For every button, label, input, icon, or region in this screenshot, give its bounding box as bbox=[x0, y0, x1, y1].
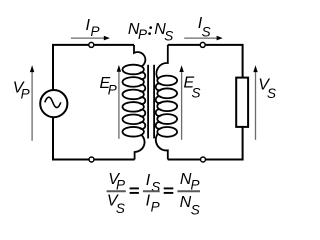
wire: left branch lower + bottom-left bbox=[53, 118, 135, 160]
svg-text:S: S bbox=[192, 85, 201, 100]
primary winding loop 3 bbox=[123, 90, 144, 100]
secondary winding loop 3 bbox=[157, 101, 177, 111]
secondary winding loop 1 bbox=[157, 76, 177, 86]
primary winding connector 3-4 bbox=[139, 97, 145, 104]
primary winding connector 5-6 bbox=[139, 122, 145, 129]
secondary winding loop 4 bbox=[157, 114, 177, 124]
svg-text:S: S bbox=[191, 202, 200, 217]
primary winding loop 2 bbox=[123, 77, 144, 87]
secondary winding loop 2 bbox=[157, 88, 177, 98]
resistor load R bbox=[236, 78, 248, 127]
svg-text:P: P bbox=[151, 200, 160, 215]
wire: top-right + right branch upper bbox=[168, 45, 243, 78]
wire: left branch upper + top-left bbox=[53, 45, 134, 90]
arrow EP emf bbox=[118, 71, 120, 139]
svg-text:P: P bbox=[21, 87, 30, 102]
primary winding loop 1 bbox=[123, 65, 144, 75]
formula equals sign 1 bbox=[130, 187, 139, 189]
wire: bottom-right + right branch lower bbox=[168, 127, 243, 160]
node terminal bottom-left bbox=[89, 157, 94, 162]
formula fraction bar 2 bbox=[143, 190, 160, 192]
svg-text:S: S bbox=[116, 201, 125, 216]
secondary winding connector 1-2 bbox=[156, 84, 162, 91]
secondary winding loop 5 bbox=[157, 127, 177, 137]
primary winding connector 1-2 bbox=[139, 72, 145, 79]
formula fraction bar 1 bbox=[107, 190, 126, 192]
primary winding exit lead bbox=[135, 135, 145, 160]
svg-text:S: S bbox=[267, 86, 276, 101]
svg-text:S: S bbox=[164, 28, 173, 43]
svg-text:I: I bbox=[146, 172, 151, 189]
secondary winding entry lead bbox=[156, 45, 167, 79]
svg-text:S: S bbox=[202, 25, 211, 40]
primary winding connector 4-5 bbox=[139, 110, 145, 117]
node terminal top-right bbox=[200, 42, 205, 47]
arrow IS current bbox=[184, 37, 217, 39]
svg-text:P: P bbox=[191, 178, 200, 193]
primary winding loop 6 bbox=[123, 127, 144, 137]
node terminal bottom-right bbox=[201, 157, 206, 162]
secondary winding exit lead bbox=[156, 134, 168, 160]
secondary winding connector 2-3 bbox=[156, 96, 162, 103]
AC source circle bbox=[40, 90, 67, 117]
primary winding loop 4 bbox=[123, 102, 144, 112]
primary winding loop 5 bbox=[123, 115, 144, 125]
arrow IP current bbox=[71, 37, 104, 39]
arrow VS voltage bbox=[255, 72, 257, 140]
svg-text:N: N bbox=[180, 194, 192, 211]
formula fraction bar 3 bbox=[177, 190, 200, 192]
arrow ES emf bbox=[181, 72, 183, 140]
svg-text:P: P bbox=[91, 24, 100, 39]
AC source sine wave bbox=[45, 97, 61, 107]
primary winding connector 2-3 bbox=[139, 85, 145, 92]
secondary winding connector 3-4 bbox=[156, 109, 162, 116]
primary winding entry lead bbox=[134, 45, 145, 67]
node terminal top-left bbox=[89, 42, 94, 47]
formula equals sign 2 bbox=[164, 187, 174, 189]
transformer core line 1 bbox=[147, 65, 149, 139]
arrow VP voltage bbox=[31, 72, 33, 141]
secondary winding connector 4-5 bbox=[156, 122, 162, 129]
label NP : NS colon dots bbox=[149, 26, 152, 29]
transformer core line 2 bbox=[153, 65, 155, 139]
svg-text:P: P bbox=[138, 27, 147, 42]
svg-text:P: P bbox=[108, 83, 117, 98]
